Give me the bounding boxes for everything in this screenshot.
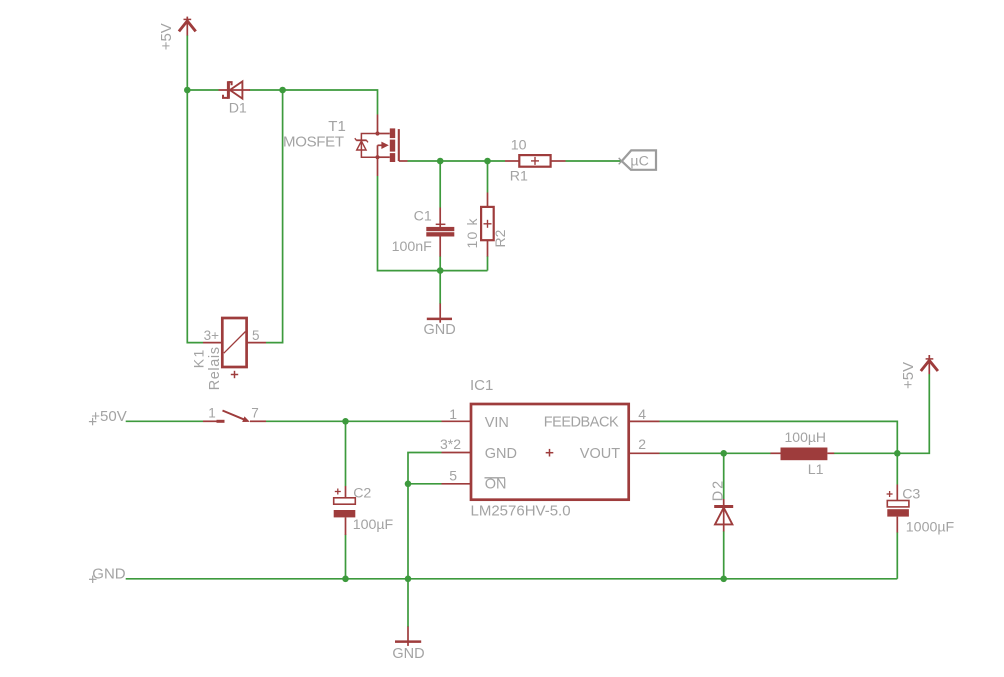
svg-text:+50V: +50V bbox=[91, 408, 126, 425]
wire GND pin of IC bbox=[408, 453, 442, 484]
wire D1 to node B to T1 drain bbox=[250, 90, 378, 115]
wire C3 bottom to GND rail bbox=[896, 532, 898, 579]
svg-text:5: 5 bbox=[449, 467, 457, 483]
capacitor C2 (polarized) bbox=[334, 486, 356, 535]
wire GND rail bbox=[126, 578, 898, 580]
svg-text:3*2: 3*2 bbox=[440, 436, 461, 452]
capacitor C1 bbox=[426, 208, 454, 257]
node D junction bbox=[342, 418, 349, 425]
net flag cross (+50V) bbox=[89, 418, 97, 425]
wire T1 gate to R1 bbox=[408, 160, 506, 162]
wire L1 to node F bbox=[834, 452, 897, 454]
svg-text:LM2576HV-5.0: LM2576HV-5.0 bbox=[471, 502, 571, 519]
wire ON pin of IC bbox=[408, 483, 442, 485]
op-amp/regulator IC1 box bbox=[442, 404, 660, 500]
svg-text:IC1: IC1 bbox=[470, 377, 493, 394]
node C junction bbox=[437, 267, 444, 274]
diode D2 bbox=[714, 499, 733, 531]
wire T1 source down and right to node C bbox=[378, 176, 441, 271]
supply +5V symbol (top left) bbox=[179, 17, 196, 36]
svg-text:D2: D2 bbox=[710, 479, 726, 502]
svg-text:2: 2 bbox=[638, 436, 646, 452]
gate/R2 junction bbox=[484, 158, 491, 165]
svg-text:C2: C2 bbox=[353, 486, 371, 502]
wire C1 bottom to node C bbox=[439, 256, 441, 271]
svg-text:R2: R2 bbox=[492, 229, 508, 247]
svg-text:4: 4 bbox=[638, 406, 646, 422]
wire gate node down to C1 bbox=[439, 161, 441, 208]
wire gate node to R2 top bbox=[487, 161, 489, 193]
wire switch to node D to IC VIN bbox=[266, 420, 442, 422]
C2/rail junction bbox=[342, 576, 349, 583]
svg-text:7: 7 bbox=[251, 405, 259, 420]
svg-text:1: 1 bbox=[208, 405, 216, 420]
svg-text:R1: R1 bbox=[510, 168, 528, 184]
svg-text:VIN: VIN bbox=[485, 415, 509, 431]
wire relay pin 5 up to node B bbox=[266, 90, 283, 343]
resistor R1 bbox=[505, 155, 566, 167]
svg-text:L1: L1 bbox=[808, 462, 824, 478]
svg-text:100nF: 100nF bbox=[392, 239, 433, 255]
svg-text:1: 1 bbox=[449, 406, 457, 422]
node G junction (D2 top) bbox=[720, 450, 727, 457]
wire FEEDBACK loop bbox=[660, 421, 898, 453]
svg-text:GND: GND bbox=[92, 566, 126, 583]
svg-text:GND: GND bbox=[424, 322, 456, 338]
svg-text:C1: C1 bbox=[414, 208, 432, 224]
svg-text:5: 5 bbox=[252, 328, 260, 343]
wire node A down to relay pin 3 bbox=[187, 90, 203, 343]
svg-text:10 k: 10 k bbox=[464, 217, 480, 248]
node B junction bbox=[279, 87, 286, 94]
net flag cross (GND left) bbox=[89, 576, 97, 583]
wire R1 to uC flag bbox=[566, 160, 622, 162]
svg-text:ON: ON bbox=[485, 477, 507, 493]
svg-text:K1: K1 bbox=[190, 348, 206, 368]
ground symbol (under C1) bbox=[427, 304, 452, 323]
svg-text:100µH: 100µH bbox=[785, 429, 827, 445]
node A junction bbox=[184, 87, 191, 94]
switch S (pins 1,7) bbox=[203, 411, 266, 423]
svg-text:+5V: +5V bbox=[900, 362, 917, 389]
svg-text:D1: D1 bbox=[229, 100, 247, 116]
svg-text:1000µF: 1000µF bbox=[906, 519, 955, 535]
svg-text:GND: GND bbox=[485, 446, 517, 462]
svg-text:MOSFET: MOSFET bbox=[283, 134, 344, 151]
svg-text:GND: GND bbox=[392, 646, 424, 662]
D2/rail junction bbox=[720, 576, 727, 583]
svg-text:T1: T1 bbox=[328, 118, 346, 135]
supply +5V symbol (right) bbox=[921, 355, 938, 374]
wire node C to R2 bottom bbox=[440, 270, 487, 272]
wire node C down to GND symbol bbox=[439, 271, 441, 304]
svg-text:Relais: Relais bbox=[207, 346, 223, 390]
resistor R2 bbox=[481, 193, 494, 257]
svg-text:3+: 3+ bbox=[204, 328, 220, 343]
wire D2 bottom to GND rail bbox=[723, 531, 725, 579]
svg-text:VOUT: VOUT bbox=[580, 446, 620, 462]
wire node D down to C2 bbox=[345, 421, 347, 486]
ON pin junction bbox=[405, 481, 412, 488]
inductor L1 bbox=[771, 448, 835, 461]
svg-text:10: 10 bbox=[511, 137, 527, 153]
transistor T1 (p-mosfet with body diode) bbox=[355, 115, 408, 177]
svg-text:+5V: +5V bbox=[158, 23, 175, 50]
capacitor C3 (polarized) bbox=[887, 485, 909, 533]
wire node A to D1 bbox=[187, 89, 218, 91]
svg-text:µC: µC bbox=[630, 154, 648, 170]
svg-text:100µF: 100µF bbox=[353, 517, 394, 533]
ground symbol (bottom) bbox=[395, 627, 421, 646]
svg-text:C3: C3 bbox=[902, 487, 920, 503]
wire node E down to GND symbol bbox=[407, 484, 409, 627]
IC-GND/rail junction bbox=[405, 576, 412, 583]
wire +5V to node A bbox=[186, 35, 188, 90]
uC connector flag bbox=[619, 150, 656, 169]
relay K1 bbox=[203, 318, 266, 378]
wire R2 bottom stub bbox=[487, 256, 489, 271]
wire +50V to switch bbox=[126, 420, 203, 422]
gate/C1 junction bbox=[437, 158, 444, 165]
node F junction bbox=[894, 450, 901, 457]
wire VOUT to L1 bbox=[660, 452, 772, 454]
diode D1 (schottky) bbox=[219, 81, 251, 99]
wire node G down to D2 bbox=[723, 453, 725, 499]
wire node F to +5V arrow bbox=[897, 374, 929, 453]
wire C2 bottom to GND rail bbox=[345, 535, 347, 579]
svg-text:FEEDBACK: FEEDBACK bbox=[544, 414, 619, 430]
wire node F down to C3 bbox=[896, 453, 898, 484]
